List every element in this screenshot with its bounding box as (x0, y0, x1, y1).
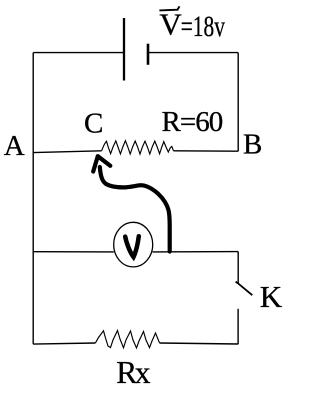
wire right vertical top (237, 53, 239, 152)
wire bottom left (33, 343, 95, 344)
wire zigzag to B (174, 150, 239, 152)
wire voltmeter row right (153, 251, 239, 253)
wiper arrow head left barb (93, 156, 98, 171)
voltmeter V circle (114, 222, 153, 267)
wiper arrow shaft (100, 167, 170, 252)
label =18v of V=18v (181, 9, 226, 42)
svg-text:C: C (84, 107, 103, 139)
label V=18v overline (159, 6, 179, 10)
resistor Rx zigzag (96, 331, 160, 349)
wire voltmeter row left (33, 251, 114, 253)
switch K blade (236, 282, 253, 296)
svg-text:K: K (260, 279, 283, 314)
wire switch to bottom (237, 309, 239, 344)
wire top-left horizontal (33, 52, 123, 54)
wire bottom right (160, 343, 239, 344)
wire A to zigzag (33, 151, 101, 153)
voltmeter V glyph (125, 236, 139, 257)
svg-text:V: V (159, 6, 182, 41)
svg-text:=18v: =18v (181, 9, 226, 42)
wire left vertical (32, 53, 34, 345)
svg-text:B: B (243, 128, 262, 160)
svg-text:A: A (4, 130, 25, 162)
svg-text:R=60: R=60 (162, 106, 223, 138)
battery V1 short plate (147, 44, 150, 65)
wire top-right horizontal (149, 52, 238, 54)
wire right vertical to switch (237, 252, 239, 284)
resistor R=60 zigzag (102, 141, 174, 154)
wiper arrow head right barb (98, 156, 111, 166)
battery V1 long plate (123, 18, 125, 81)
svg-text:Rx: Rx (116, 355, 151, 390)
